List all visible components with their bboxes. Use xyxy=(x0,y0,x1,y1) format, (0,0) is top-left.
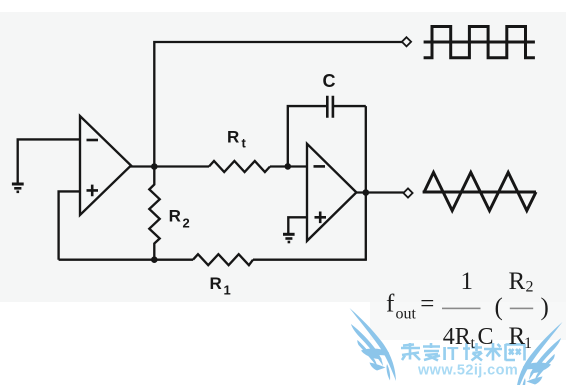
wire Rt to U2 minus xyxy=(270,165,307,167)
bottom wire from U1 plus to R1 xyxy=(59,259,193,261)
node U2 minus junction dot xyxy=(285,163,292,170)
ground G1 xyxy=(12,184,24,192)
svg-text:R: R xyxy=(227,127,239,146)
node A junction dot xyxy=(151,163,158,170)
U2 plus input sign xyxy=(315,212,327,224)
watermark right wing xyxy=(516,322,563,385)
op-amp U2 (right integrator) xyxy=(307,144,356,241)
node U2 output junction dot xyxy=(363,189,370,196)
op-amp U1 (left comparator) xyxy=(80,116,131,215)
ground G2 xyxy=(283,234,295,242)
formula background panel xyxy=(370,302,566,340)
svg-text:C: C xyxy=(478,324,494,350)
svg-text:R: R xyxy=(509,268,526,295)
svg-text:R: R xyxy=(210,274,222,293)
svg-text:C: C xyxy=(323,71,336,91)
resistor Rt xyxy=(209,161,270,172)
svg-text:1: 1 xyxy=(524,335,532,352)
formula f_out xyxy=(386,268,549,352)
wire U2 plus input to ground xyxy=(288,217,307,233)
square wave trace xyxy=(424,27,535,58)
U2 minus input sign xyxy=(314,165,326,168)
svg-text:(: ( xyxy=(495,294,503,321)
svg-text:1: 1 xyxy=(461,268,474,295)
background gray panel xyxy=(0,12,566,302)
wire U1 minus input xyxy=(18,139,80,184)
svg-text:): ) xyxy=(541,294,549,321)
我 xyxy=(401,343,420,360)
capacitor C xyxy=(327,96,333,118)
svg-text:=: = xyxy=(420,291,434,318)
网 xyxy=(506,344,525,361)
svg-text:R: R xyxy=(509,323,526,350)
formula main fraction bar xyxy=(442,308,481,310)
bottom wire R1 to feedback corner xyxy=(253,259,367,261)
resistor R2 xyxy=(149,167,159,260)
svg-text:f: f xyxy=(386,291,395,318)
wire U2 output xyxy=(355,191,404,193)
svg-text:2: 2 xyxy=(526,279,534,296)
svg-text:2: 2 xyxy=(183,216,190,231)
svg-text:t: t xyxy=(471,335,476,352)
svg-text:out: out xyxy=(396,306,417,323)
triangle wave trace xyxy=(424,172,536,210)
svg-text:R: R xyxy=(169,207,181,226)
formula small fraction bar xyxy=(510,308,533,310)
技 xyxy=(463,343,482,361)
resistor R1 xyxy=(193,254,253,265)
术 xyxy=(484,343,502,361)
wire U1 plus input feedback xyxy=(59,191,80,259)
node R2 bottom junction dot xyxy=(151,256,158,263)
爱 xyxy=(423,343,440,361)
U1 minus input sign xyxy=(87,139,99,142)
square wave axis xyxy=(424,41,535,44)
svg-text:t: t xyxy=(242,136,247,151)
watermark left wing xyxy=(350,308,397,381)
watermark chinese text 我爱IT技术网 (simulated strokes) xyxy=(401,343,440,361)
wire capacitor branch left xyxy=(288,106,326,166)
svg-text:1: 1 xyxy=(224,283,231,298)
svg-text:www.52ij.com: www.52ij.com xyxy=(417,363,518,379)
output terminal diamond (square wave) xyxy=(402,37,411,46)
wire node A up to square output xyxy=(154,42,403,167)
U1 plus input sign xyxy=(87,185,99,197)
wire capacitor right / feedback vertical xyxy=(334,106,366,260)
triangle wave axis xyxy=(423,191,536,194)
wire U1 output to node A xyxy=(130,165,210,167)
svg-text:4R: 4R xyxy=(443,324,471,350)
output terminal diamond (triangle wave) xyxy=(403,188,412,197)
